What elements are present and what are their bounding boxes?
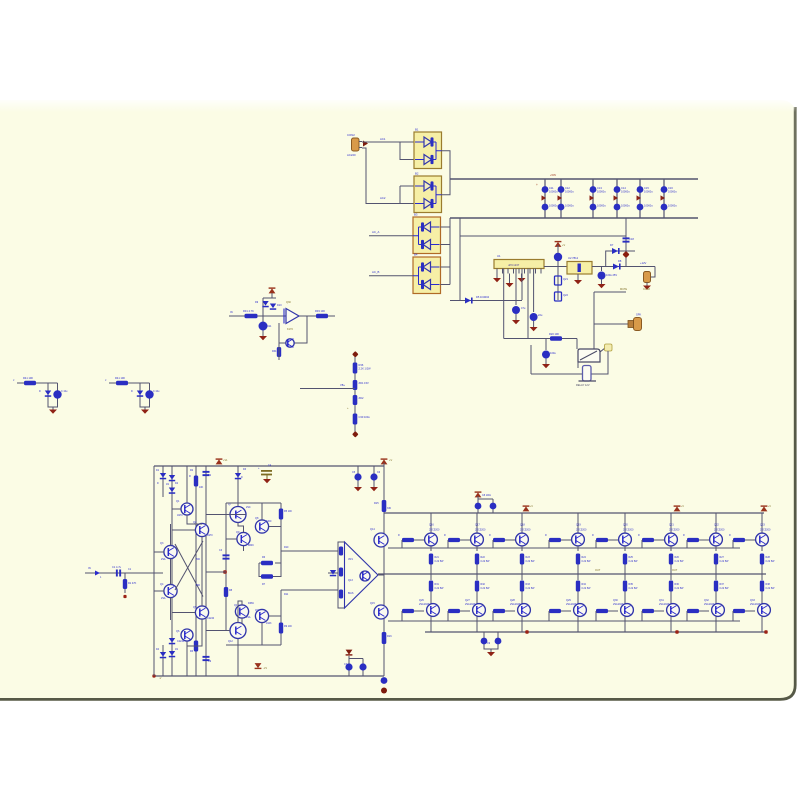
svg-text:2SC5200: 2SC5200 [520,529,531,532]
svg-text:100u 25V: 100u 25V [606,273,617,277]
svg-text:10000u: 10000u [644,189,653,193]
svg-text:R34: R34 [272,350,277,353]
svg-text:0.22 5W: 0.22 5W [526,587,536,590]
svg-text:+V: +V [530,505,533,508]
svg-text:B1: B1 [415,128,419,132]
svg-text:R32: R32 [481,583,486,586]
svg-text:10000u: 10000u [668,204,677,208]
svg-text:10K: 10K [199,486,204,489]
svg-text:2SC: 2SC [246,506,251,509]
svg-text:2SA1943: 2SA1943 [659,603,670,606]
svg-text:AC_B: AC_B [372,270,379,274]
svg-text:R16: R16 [387,635,392,638]
svg-text:C30 100u: C30 100u [359,415,371,419]
svg-text:100u: 100u [550,351,556,355]
svg-text:R20 10K: R20 10K [549,332,559,336]
svg-text:CON2: CON2 [347,133,355,137]
svg-text:C2240: C2240 [177,640,185,643]
svg-text:2SA1943: 2SA1943 [566,603,577,606]
svg-text:Q21: Q21 [563,277,568,281]
svg-text:1N: 1N [166,483,169,486]
svg-text:R1 47K: R1 47K [128,582,137,585]
svg-text:A970: A970 [177,514,183,517]
svg-text:-V: -V [159,677,162,680]
svg-text:R5 100: R5 100 [284,510,292,513]
svg-text:RELAY 12V: RELAY 12V [576,383,590,387]
svg-text:ZD2: ZD2 [359,396,364,400]
svg-text:Q15: Q15 [370,602,375,605]
svg-text:AC1: AC1 [380,137,386,141]
svg-text:+V: +V [681,505,684,508]
svg-text:560: 560 [196,558,201,561]
svg-text:10000u: 10000u [621,204,630,208]
svg-text:B3: B3 [414,213,418,217]
svg-text:330: 330 [387,507,392,510]
svg-text:uPC1237: uPC1237 [508,263,520,267]
svg-text:1943: 1943 [266,622,272,625]
svg-text:R31 4.7K: R31 4.7K [243,309,254,313]
svg-text:0.22 5W: 0.22 5W [582,587,592,590]
svg-text:+V: +V [768,505,771,508]
svg-text:C15: C15 [644,186,649,190]
svg-text:D8: D8 [618,259,622,263]
svg-text:ZD1 15V: ZD1 15V [359,381,370,385]
svg-text:10000u: 10000u [597,189,606,193]
svg-text:2SC5200: 2SC5200 [429,529,440,532]
svg-text:Q30: Q30 [613,599,618,602]
svg-text:10000u: 10000u [565,204,574,208]
svg-text:Q16: Q16 [429,524,434,527]
svg-text:AC2: AC2 [380,196,386,200]
svg-text:0.22 5W: 0.22 5W [766,587,776,590]
svg-text:2SC5200: 2SC5200 [760,529,771,532]
svg-text:2SA: 2SA [161,597,166,600]
svg-text:C18: C18 [629,237,634,241]
svg-text:560: 560 [196,584,201,587]
svg-text:2SC5200: 2SC5200 [669,529,680,532]
svg-text:2SA: 2SA [161,558,166,561]
svg-text:R28: R28 [766,556,771,559]
svg-text:D7: D7 [610,243,614,247]
svg-text:Q10: Q10 [234,604,239,607]
svg-text:Q13: Q13 [348,579,353,582]
svg-text:AC220: AC220 [347,153,356,157]
svg-text:R33 100: R33 100 [315,309,325,313]
svg-text:0.22 5W: 0.22 5W [675,587,685,590]
svg-text:R26: R26 [675,556,680,559]
svg-text:C14: C14 [621,186,626,190]
svg-text:IN: IN [88,566,91,570]
svg-text:D: D [39,390,41,393]
svg-text:2SA1943: 2SA1943 [465,603,476,606]
svg-text:OUT: OUT [672,569,678,572]
svg-text:D: D [131,390,133,393]
svg-text:C 10u: C 10u [153,390,160,393]
svg-text:1N: 1N [175,648,178,651]
svg-text:R27: R27 [720,556,725,559]
svg-text:BIAS: BIAS [348,592,354,595]
svg-text:R33: R33 [526,583,531,586]
svg-text:Q30: Q30 [286,301,291,304]
svg-text:D11: D11 [267,325,272,328]
svg-text:0.22 5W: 0.22 5W [766,560,776,563]
svg-text:+50V: +50V [550,173,556,177]
svg-text:0.22 5W: 0.22 5W [629,560,639,563]
svg-text:2SC5200: 2SC5200 [475,529,486,532]
svg-text:R: R [189,475,191,478]
svg-text:0.22 5W: 0.22 5W [481,587,491,590]
svg-text:Q23: Q23 [760,524,765,527]
svg-text:R35: R35 [629,583,634,586]
svg-text:2SC5200: 2SC5200 [576,529,587,532]
svg-text:R36: R36 [675,583,680,586]
svg-text:VR1: VR1 [348,558,353,561]
svg-text:+V: +V [562,244,565,247]
svg-text:R22: R22 [481,556,486,559]
svg-text:Q27: Q27 [465,599,470,602]
svg-text:0.22 5W: 0.22 5W [629,587,639,590]
svg-text:10000u: 10000u [549,204,558,208]
svg-text:2SC5200: 2SC5200 [623,529,634,532]
svg-text:VB+: VB+ [340,383,345,387]
svg-text:IN: IN [230,310,233,314]
svg-text:2SA1943: 2SA1943 [704,603,715,606]
svg-text:AC_A: AC_A [372,230,379,234]
svg-text:D669: D669 [248,602,254,605]
svg-text:SPK: SPK [636,313,641,317]
svg-text:Q29: Q29 [566,599,571,602]
svg-text:B649: B649 [248,544,254,547]
svg-text:2SA1943: 2SA1943 [613,603,624,606]
svg-text:C12: C12 [565,186,570,190]
svg-text:R9 100: R9 100 [284,625,292,628]
svg-text:+12V: +12V [640,261,647,265]
svg-text:Q22: Q22 [714,524,719,527]
svg-text:2SA: 2SA [246,616,251,619]
svg-text:+: + [536,183,538,187]
svg-text:B2: B2 [415,172,419,176]
svg-text:R11: R11 [284,593,289,596]
svg-text:22u: 22u [538,313,543,317]
svg-text:OUT: OUT [595,569,601,572]
svg-text:2.2K 1/2W: 2.2K 1/2W [359,367,372,371]
svg-text:Q14: Q14 [370,528,375,531]
svg-text:+V1: +V1 [223,459,228,462]
svg-text:0.22 5W: 0.22 5W [435,587,445,590]
svg-text:MUTE: MUTE [620,288,627,291]
svg-text:U2 7812: U2 7812 [568,256,579,260]
svg-text:R24: R24 [582,556,587,559]
svg-text:CON3: CON3 [643,288,651,291]
svg-text:A970: A970 [207,534,213,537]
svg-text:C1 4.7u: C1 4.7u [112,565,122,569]
svg-text:0.22 5W: 0.22 5W [435,560,445,563]
svg-text:R31: R31 [435,583,440,586]
svg-text:D10: D10 [277,304,282,307]
svg-text:Q17: Q17 [475,524,480,527]
svg-text:Q33: Q33 [750,599,755,602]
svg-text:Q20: Q20 [623,524,628,527]
svg-text:R23: R23 [526,556,531,559]
svg-text:Q21: Q21 [669,524,674,527]
svg-text:Q18: Q18 [520,524,525,527]
svg-text:R34: R34 [582,583,587,586]
svg-text:R36: R36 [359,363,364,367]
svg-text:C13: C13 [597,186,602,190]
svg-text:0.22 5W: 0.22 5W [582,560,592,563]
svg-text:+V: +V [389,458,393,462]
svg-text:R21: R21 [435,556,440,559]
svg-text:10000u: 10000u [565,189,574,193]
svg-text:47u: 47u [521,306,526,310]
svg-text:C16: C16 [668,186,673,190]
svg-text:10000u: 10000u [549,189,558,193]
svg-text:R41 10K: R41 10K [23,376,33,380]
svg-text:C2240: C2240 [207,617,215,620]
svg-text:0.22 5W: 0.22 5W [720,560,730,563]
svg-text:C8 100n: C8 100n [482,494,492,497]
svg-text:10000u: 10000u [668,189,677,193]
svg-text:Q26: Q26 [419,599,424,602]
svg-text:2SC5200: 2SC5200 [714,529,725,532]
svg-text:B4: B4 [414,253,418,257]
svg-text:Q32: Q32 [704,599,709,602]
svg-text:R38: R38 [766,583,771,586]
svg-text:10000u: 10000u [644,204,653,208]
svg-text:R15: R15 [374,502,379,505]
svg-text:R41 10K: R41 10K [115,376,125,380]
svg-text:Q11: Q11 [255,609,260,612]
svg-text:K170: K170 [287,328,293,331]
svg-text:2SA1943: 2SA1943 [510,603,521,606]
svg-text:10000u: 10000u [621,189,630,193]
svg-text:Q31: Q31 [659,599,664,602]
svg-text:Q19: Q19 [576,524,581,527]
svg-text:Q28: Q28 [510,599,515,602]
svg-text:Q12: Q12 [228,640,233,643]
svg-text:0.22 5W: 0.22 5W [720,587,730,590]
svg-text:5200: 5200 [266,520,272,523]
svg-text:C11: C11 [549,186,554,190]
svg-text:0.22 5W: 0.22 5W [481,560,491,563]
svg-text:C 10u: C 10u [61,390,68,393]
svg-text:R25: R25 [629,556,634,559]
svg-text:-V1: -V1 [263,667,268,670]
svg-text:0.22 5W: 0.22 5W [675,560,685,563]
svg-text:2SA1943: 2SA1943 [750,603,761,606]
svg-text:2SA1943: 2SA1943 [419,603,430,606]
svg-text:10000u: 10000u [597,204,606,208]
svg-text:R37: R37 [720,583,725,586]
svg-text:U1: U1 [497,254,501,258]
svg-text:Q22: Q22 [563,293,568,297]
svg-text:0.22 5W: 0.22 5W [526,560,536,563]
svg-text:D5 1N4004: D5 1N4004 [476,295,490,299]
svg-text:R10: R10 [284,546,289,549]
